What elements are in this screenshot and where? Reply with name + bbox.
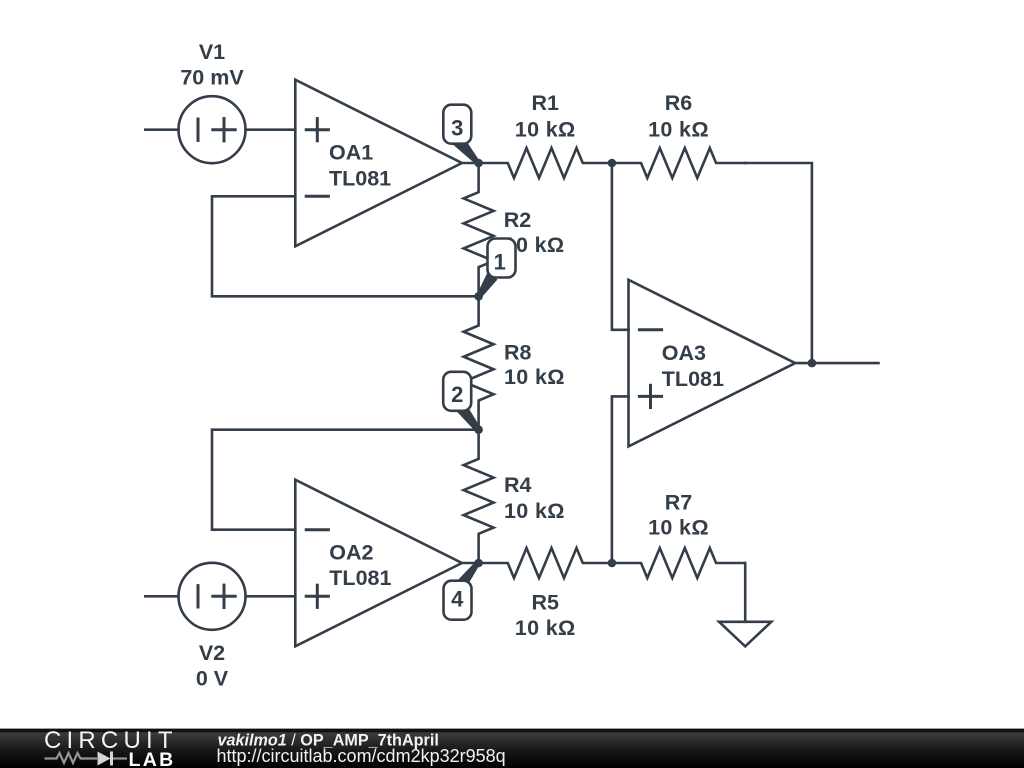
wire OA3 non-inverting input <box>612 396 629 563</box>
svg-text:R2: R2 <box>504 208 532 232</box>
svg-text:2: 2 <box>451 382 463 407</box>
node dots <box>474 159 816 568</box>
wire OA3 inverting input <box>612 163 629 330</box>
svg-text:OA1: OA1 <box>329 141 373 165</box>
svg-text:TL081: TL081 <box>329 566 391 590</box>
resistor R5 <box>479 548 612 578</box>
svg-text:10 kΩ: 10 kΩ <box>515 117 576 141</box>
svg-text:4: 4 <box>451 586 464 611</box>
junction dot R5/R7 <box>608 559 617 568</box>
wire OA3 output <box>795 362 878 365</box>
resistor R4 <box>464 430 494 563</box>
resistor R8 <box>464 296 494 429</box>
svg-text:R8: R8 <box>504 340 532 364</box>
CircuitLab logo <box>44 727 178 768</box>
svg-text:http://circuitlab.com/cdm2kp32: http://circuitlab.com/cdm2kp32r958q <box>217 746 506 766</box>
svg-text:R5: R5 <box>531 591 559 615</box>
svg-text:LAB: LAB <box>129 749 176 768</box>
resistor R2 <box>464 163 494 296</box>
svg-text:OA3: OA3 <box>662 341 706 365</box>
svg-text:V2: V2 <box>199 641 225 665</box>
wire V2 to OA2 + input <box>246 595 296 598</box>
wire V1 to OA1 + input <box>246 128 296 131</box>
svg-text:10 kΩ: 10 kΩ <box>515 616 576 640</box>
resistor R6 <box>612 148 745 178</box>
node 3 junction dot <box>474 159 483 168</box>
svg-text:TL081: TL081 <box>329 167 391 191</box>
footer text <box>217 731 506 766</box>
node 4 junction dot <box>474 559 483 568</box>
wire OA1 output <box>462 162 479 165</box>
node 2 label flag <box>443 372 480 432</box>
svg-text:R7: R7 <box>665 490 693 514</box>
svg-text:3: 3 <box>451 116 463 141</box>
node 3 label flag <box>443 105 480 165</box>
node 1 label flag <box>477 239 516 298</box>
node 2 junction dot <box>474 425 483 434</box>
svg-text:10 kΩ: 10 kΩ <box>504 499 565 523</box>
svg-text:10 kΩ: 10 kΩ <box>504 365 565 389</box>
voltage source V2 <box>145 563 245 630</box>
resistor R1 <box>479 148 612 178</box>
voltage source V1 <box>145 96 245 163</box>
wire R6 to OA3 output node <box>745 163 812 363</box>
svg-text:0 V: 0 V <box>196 667 229 691</box>
op-amp OA1 <box>295 80 462 247</box>
wire OA2 feedback <box>212 430 479 530</box>
junction dot R1/R6 <box>608 159 617 168</box>
wire OA2 output <box>462 562 479 565</box>
svg-text:R6: R6 <box>665 91 693 115</box>
svg-text:R1: R1 <box>531 91 559 115</box>
resistor R7 <box>612 548 745 578</box>
op-amp OA2 <box>295 480 462 647</box>
svg-text:70 mV: 70 mV <box>180 66 244 90</box>
node 1 junction dot <box>474 292 483 301</box>
svg-text:10 kΩ: 10 kΩ <box>648 515 709 539</box>
node 4 label flag <box>444 561 481 620</box>
svg-text:10 kΩ: 10 kΩ <box>648 117 709 141</box>
wire OA1 feedback <box>212 196 479 296</box>
svg-text:TL081: TL081 <box>662 367 724 391</box>
svg-text:R4: R4 <box>504 473 532 497</box>
svg-text:OA2: OA2 <box>329 541 373 565</box>
op-amp OA3 <box>629 280 796 447</box>
junction dot OA3 output <box>808 359 817 368</box>
svg-text:1: 1 <box>494 249 506 274</box>
svg-text:V1: V1 <box>199 40 225 64</box>
ground <box>719 563 771 646</box>
